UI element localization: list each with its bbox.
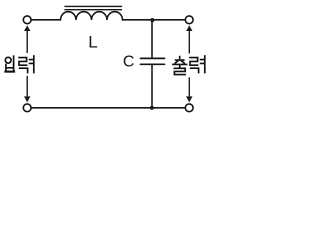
input arrow down (head) [24,96,30,102]
출 : rieul [174,68,185,74]
입 : i vowel [13,56,15,64]
node junction bottom (capacitor to wire) [150,106,154,110]
력 : yeo vowel [201,56,205,73]
력 : yeo vowel [30,56,34,73]
terminal T4 bottom-right output [185,104,193,112]
terminal T2 top-right output [185,16,193,24]
output arrow down (shaft) [188,77,190,96]
력 : final giyeok [191,68,199,72]
wire top-right: inductor to node and T2 [123,19,185,21]
input arrow down (shaft) [26,76,28,97]
label 출력 (output, hand-drawn hangul) [173,56,205,75]
입 : bieup [6,65,14,72]
node junction top (wire to capacitor) [150,18,154,22]
capacitor C top plate [141,57,165,59]
력 : rieul [19,58,27,66]
input arrow up (head) [24,25,30,31]
입 : ieung [5,57,11,63]
inductor L core line 1 [65,5,122,7]
출 : chieut [175,57,184,64]
svg-text:L: L [88,32,97,51]
output arrow up (shaft) [188,31,190,54]
terminal T1 top-left input [23,16,31,24]
출 : u vowel [173,64,187,67]
wire capacitor lower lead [151,65,153,108]
terminal T3 bottom-left input [23,104,31,112]
력 : final giyeok [20,68,28,72]
input arrow up (shaft) [26,31,28,53]
inductor L winding (4 humps) [61,12,123,20]
wire top-left: T1 to inductor [32,19,61,21]
wire capacitor upper lead [151,20,153,58]
output arrow up (head) [186,25,192,31]
력 : rieul [190,58,198,66]
output arrow down (head) [186,96,192,102]
svg-text:C: C [123,53,135,70]
inductor L core line 2 [65,9,122,11]
label 입력 (input, hand-drawn hangul) [5,56,34,73]
wire bottom: T3 to T4 [32,107,185,109]
capacitor C bottom plate [141,63,165,65]
